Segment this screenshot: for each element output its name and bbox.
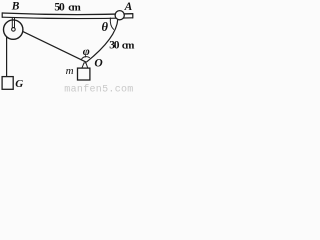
svg-text:θ: θ [102,20,109,34]
svg-text:φ: φ [83,44,90,58]
svg-text:manfen5.com: manfen5.com [64,84,133,95]
svg-text:B: B [11,1,20,13]
svg-text:m: m [66,65,74,77]
svg-text:O: O [94,58,102,70]
svg-text:cm: cm [68,2,80,14]
svg-text:A: A [124,1,133,13]
svg-text:G: G [15,78,23,90]
svg-text:cm: cm [122,39,134,51]
svg-text:50: 50 [54,2,65,14]
svg-text:30: 30 [109,39,120,51]
